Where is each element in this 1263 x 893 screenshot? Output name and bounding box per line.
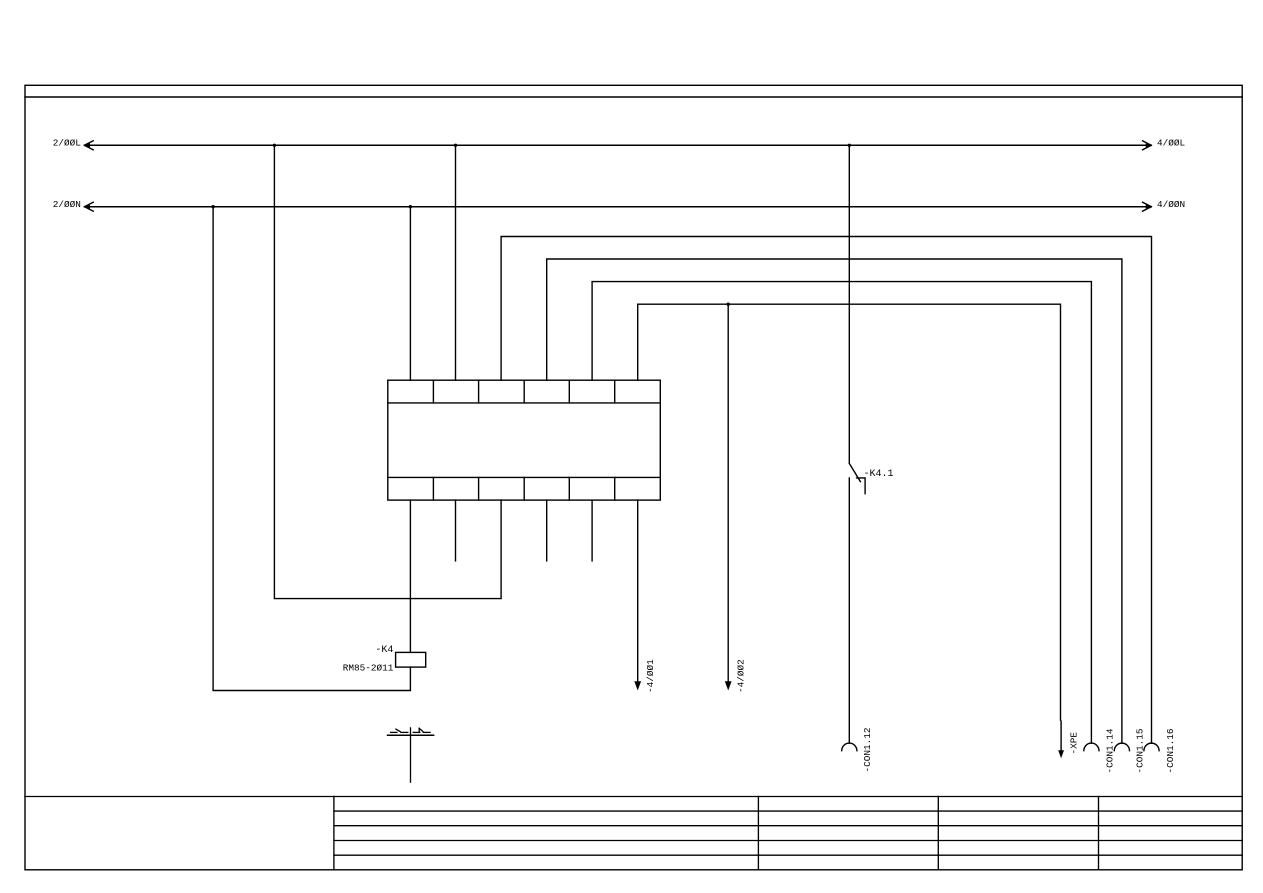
relay socket block -K4 (388, 380, 661, 500)
stub pin 2 bottom (455, 500, 457, 561)
svg-text:-K4.1: -K4.1 (864, 469, 894, 480)
junction dot N/410 (409, 205, 412, 208)
svg-text:-CON1.14: -CON1.14 (1104, 728, 1115, 773)
svg-text:-K4: -K4 (375, 645, 393, 656)
arrow right L (1143, 141, 1152, 150)
connector -CON1.14 (1084, 743, 1099, 751)
junction dot net4/728 (727, 303, 730, 306)
wire L to contact K4.1 (848, 145, 850, 463)
svg-text:4/ØØN: 4/ØØN (1157, 199, 1185, 210)
svg-text:-CON1.12: -CON1.12 (862, 727, 873, 772)
svg-text:2/ØØL: 2/ØØL (53, 137, 82, 148)
wire L bus (84, 144, 1151, 146)
svg-text:-4/ØØ1: -4/ØØ1 (645, 659, 656, 693)
svg-text:2/ØØN: 2/ØØN (53, 199, 81, 210)
wire branch to -4/002 (727, 304, 729, 681)
svg-text:-CON1.16: -CON1.16 (1165, 728, 1176, 773)
title block (25, 797, 1242, 870)
wire pin 1 bottom to coil (409, 500, 411, 652)
stub pin 5 bottom (591, 500, 593, 561)
connector -CON1.15 (1114, 743, 1129, 751)
svg-text:4/ØØL: 4/ØØL (1157, 137, 1186, 148)
svg-text:-4/ØØ2: -4/ØØ2 (736, 659, 747, 693)
wire L to block pin 2 (455, 145, 457, 380)
wire L loop to block pin 3 bottom (274, 145, 501, 598)
connector -CON1.16 (1144, 743, 1159, 751)
arrow -XPE (1058, 750, 1064, 758)
svg-text:-XPE: -XPE (1068, 732, 1079, 755)
wire contact to CON1.12 (848, 478, 850, 743)
connector -CON1.12 (842, 743, 857, 751)
junction dot N/213 (211, 205, 214, 208)
arrow right N (1143, 202, 1152, 211)
PE terminal symbol (388, 728, 434, 782)
wire net 2 block pin 4 to CON1.15 (547, 259, 1122, 743)
junction dot L/455 (454, 144, 457, 147)
arrow left L (84, 141, 93, 150)
wire net 4 block pin 6 to XPE (638, 304, 1061, 750)
contact -K4.1 (849, 463, 865, 493)
stub pin 4 bottom (546, 500, 548, 561)
arrow left N (84, 202, 93, 211)
wire net 3 block pin 5 to CON1.14 (592, 282, 1091, 744)
svg-text:RM85-2Ø11: RM85-2Ø11 (343, 663, 394, 674)
wire N to coil bottom (213, 207, 410, 691)
arrow -4/001 (634, 681, 641, 690)
arrow -4/002 (725, 681, 732, 690)
svg-text:-CON1.15: -CON1.15 (1135, 728, 1146, 773)
wire pin 6 to -4/001 (637, 500, 639, 681)
wire net 1 block pin 3 to CON1.16 (501, 237, 1151, 744)
junction dot L/274 (273, 144, 276, 147)
coil -K4 (396, 652, 426, 667)
frame header line (25, 96, 1242, 98)
wire N to block pin 1 (409, 207, 411, 381)
wire N bus (84, 206, 1151, 208)
junction dot L/849 (848, 144, 851, 147)
